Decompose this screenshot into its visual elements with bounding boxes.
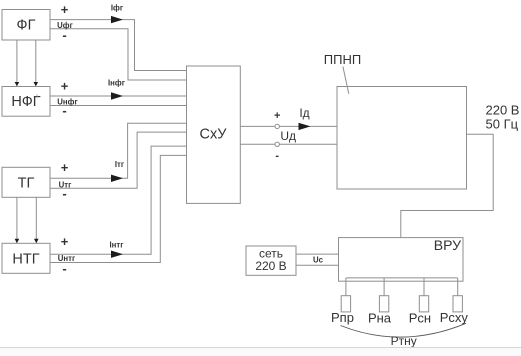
wire СхУ output 2 (Uд) to ППНП	[240, 143, 337, 145]
label Uнфг	[57, 97, 78, 106]
label + at Uд	[274, 110, 280, 122]
load box Рсху	[453, 296, 462, 312]
arrow on НТГ output 1	[111, 251, 123, 258]
load box Рсн	[419, 296, 428, 312]
wire ТГ to НТГ vertical 1	[15, 198, 20, 244]
svg-text:НФГ: НФГ	[11, 94, 40, 110]
label - at НФГ	[62, 103, 66, 118]
leader line from ППНП label to block	[343, 67, 349, 94]
svg-text:Iд: Iд	[299, 106, 309, 120]
node terminal circle on Uд line	[275, 142, 279, 146]
wire ППНП output to ВРУ	[401, 134, 493, 237]
label 220 В	[486, 103, 520, 118]
svg-text:ТГ: ТГ	[18, 176, 35, 192]
svg-text:Uc: Uc	[313, 256, 324, 265]
wire сеть to ВРУ line 2	[296, 264, 339, 266]
label Рпр	[331, 310, 354, 325]
block NFG (НФГ)	[2, 87, 50, 117]
wire СхУ output 1 (Iд) to ППНП	[240, 125, 337, 127]
svg-text:-: -	[62, 186, 66, 201]
tap wire 4 from ВРУ to Рсху box	[457, 278, 459, 296]
tap wire 2 from ВРУ to Рна box	[383, 278, 385, 296]
svg-text:ФГ: ФГ	[17, 18, 36, 34]
tap wire 1 from ВРУ to Рпр box	[345, 278, 347, 296]
label Uфг	[57, 21, 73, 30]
label + at НФГ	[61, 79, 69, 94]
block PPNP (ППНП)	[337, 87, 467, 190]
wire ТГ output 1 (current) to СхУ	[50, 123, 187, 178]
label Uтг	[59, 180, 72, 189]
svg-text:+: +	[61, 234, 69, 249]
label Рна	[368, 311, 392, 326]
label - at ФГ	[62, 27, 66, 42]
svg-text:-: -	[62, 261, 66, 276]
wire ТГ to НТГ vertical 2	[34, 198, 39, 244]
svg-text:+: +	[61, 79, 69, 94]
label ППНП	[324, 52, 361, 67]
svg-text:Рсн: Рсн	[409, 311, 431, 326]
load box Рпр	[341, 296, 350, 312]
svg-text:50 Гц: 50 Гц	[486, 117, 519, 132]
label - at НТГ	[62, 261, 66, 276]
block network source (сеть 220 В)	[246, 246, 296, 275]
label - at Uд	[275, 150, 279, 162]
label Iнфг	[108, 78, 126, 87]
wire ТГ output 2 (voltage) to СхУ	[50, 132, 187, 188]
wire сеть to ВРУ line 1	[296, 253, 339, 255]
svg-text:Uд: Uд	[280, 129, 296, 143]
label Ртну	[391, 334, 417, 348]
svg-text:-: -	[62, 103, 66, 118]
label Uд	[280, 129, 296, 143]
label Iнтг	[110, 240, 125, 249]
label 50 Гц	[486, 117, 519, 132]
wire ФГ output 2 (voltage) to СхУ	[50, 29, 187, 80]
label - at ТГ	[62, 186, 66, 201]
svg-text:Рсху: Рсху	[440, 310, 469, 325]
svg-text:+: +	[61, 2, 69, 17]
svg-text:-: -	[275, 150, 279, 162]
brace arc grouping loads	[341, 323, 467, 337]
svg-text:СхУ: СхУ	[200, 126, 228, 142]
bottom page border line	[0, 348, 521, 356]
svg-text:Iнфг: Iнфг	[108, 78, 126, 87]
svg-text:+: +	[61, 160, 69, 175]
wire ФГ to НФГ vertical 1	[15, 40, 20, 86]
wire НТГ output 1 (current) to СхУ	[50, 146, 187, 254]
block FG (ФГ)	[2, 10, 50, 41]
svg-text:Iнтг: Iнтг	[110, 240, 125, 249]
node terminal circle on Iд line	[275, 124, 279, 128]
arrow on НФГ output 1	[111, 92, 123, 99]
label Рсху	[440, 310, 469, 325]
label Iд	[299, 106, 309, 120]
wire ФГ output 1 (current) to СхУ	[50, 20, 187, 71]
arrow on Iд line	[299, 123, 311, 130]
label Uнтг	[58, 254, 76, 263]
svg-text:+: +	[274, 110, 280, 122]
svg-text:Ртну: Ртну	[391, 334, 417, 348]
label + at НТГ	[61, 234, 69, 249]
svg-text:Uнфг: Uнфг	[57, 97, 78, 106]
svg-text:Iфг: Iфг	[111, 4, 124, 13]
arrow on ТГ output 1	[111, 175, 123, 182]
wire ФГ to НФГ vertical 2	[34, 40, 39, 86]
label + at ФГ	[61, 2, 69, 17]
block TG (ТГ)	[2, 167, 50, 197]
wire НТГ output 2 (voltage) to СхУ	[50, 155, 187, 262]
block VRU (ВРУ)	[339, 237, 464, 281]
tap wire 3 from ВРУ to Рсн box	[423, 278, 425, 296]
arrow on ФГ output 1	[111, 16, 123, 23]
svg-text:Iтг: Iтг	[115, 160, 125, 169]
block SxU (СхУ)	[187, 66, 241, 203]
svg-text:НТГ: НТГ	[12, 251, 39, 267]
svg-text:Uнтг: Uнтг	[58, 254, 76, 263]
label Iфг	[111, 4, 124, 13]
wire НФГ output 1 (current) to СхУ	[50, 95, 187, 97]
svg-text:Рпр: Рпр	[331, 310, 354, 325]
wire НФГ output 2 (voltage) to СхУ	[50, 105, 187, 107]
svg-text:ВРУ: ВРУ	[434, 237, 461, 253]
svg-text:220 В: 220 В	[486, 103, 520, 118]
svg-text:220 В: 220 В	[255, 259, 286, 273]
label Рсн	[409, 311, 431, 326]
label + at ТГ	[61, 160, 69, 175]
label Iтг	[115, 160, 125, 169]
label Uc	[313, 256, 324, 265]
block NTG (НТГ)	[2, 243, 50, 273]
svg-text:ППНП: ППНП	[324, 52, 361, 67]
svg-text:-: -	[62, 27, 66, 42]
load box Рна	[379, 296, 388, 312]
bus line inside ВРУ bottom	[346, 277, 458, 279]
svg-text:Рна: Рна	[368, 311, 392, 326]
